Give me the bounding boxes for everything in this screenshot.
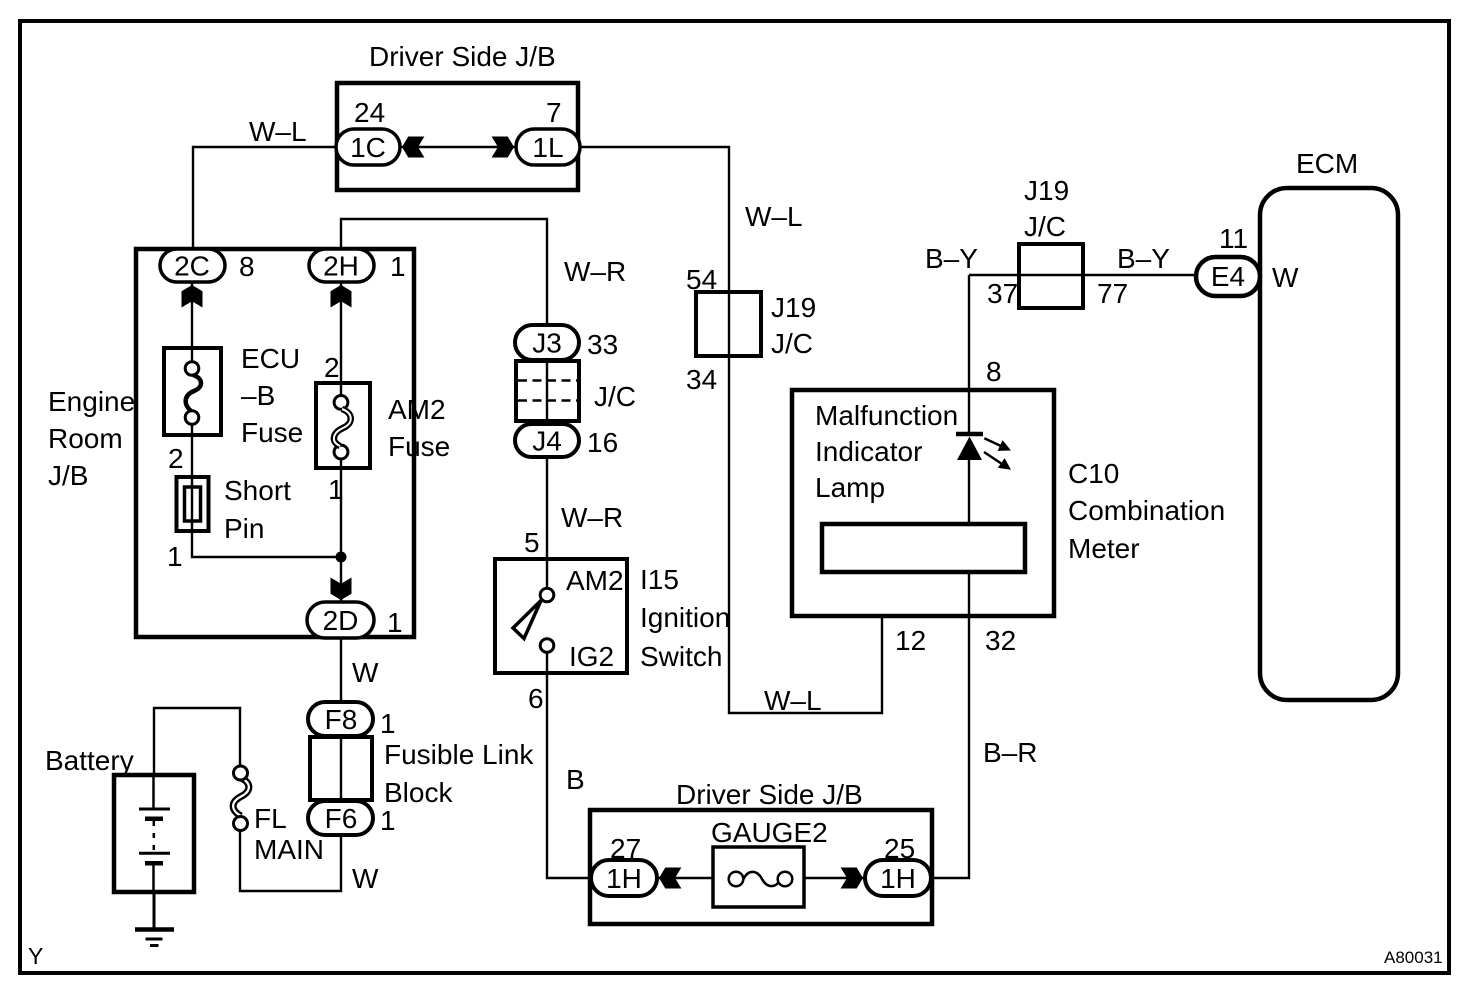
svg-text:1: 1 <box>167 541 183 572</box>
wire LED to resistor strip <box>968 460 970 524</box>
svg-text:Y: Y <box>28 943 43 969</box>
wire from 1L right to J19 J/C down to W-L corner then to meter pin 12 <box>580 147 882 713</box>
wire from 2H up and right to J3 <box>341 219 547 326</box>
svg-text:Malfunction: Malfunction <box>815 400 958 431</box>
svg-text:Meter: Meter <box>1068 533 1140 564</box>
svg-text:5: 5 <box>524 527 540 558</box>
fusible link block box <box>310 737 372 800</box>
svg-text:W–L: W–L <box>249 116 307 147</box>
svg-text:33: 33 <box>587 329 618 360</box>
svg-text:F6: F6 <box>325 803 358 834</box>
connector J3 <box>515 325 579 360</box>
wire W-L from 1C to 2C <box>193 147 336 250</box>
connector J4 <box>515 424 579 457</box>
svg-text:I15: I15 <box>640 564 679 595</box>
junction connector J/C box (J3/J4) <box>516 361 579 421</box>
wire F6 down and left to FL MAIN <box>240 830 341 891</box>
svg-text:7: 7 <box>546 97 562 128</box>
svg-text:–B: –B <box>241 380 275 411</box>
svg-text:Ignition: Ignition <box>640 602 730 633</box>
svg-text:8: 8 <box>986 356 1002 387</box>
svg-text:B–Y: B–Y <box>925 243 978 274</box>
svg-text:34: 34 <box>686 364 717 395</box>
svg-text:W: W <box>352 863 379 894</box>
arrow into 1H 27 (pointing left) <box>659 868 681 889</box>
junction block: Driver Side J/B (bottom) <box>590 810 932 924</box>
arrow down into 2D <box>331 578 352 601</box>
svg-text:E4: E4 <box>1211 261 1245 292</box>
svg-text:Battery: Battery <box>45 745 134 776</box>
svg-text:2C: 2C <box>174 251 210 282</box>
svg-text:ECU: ECU <box>241 343 300 374</box>
connector 2D <box>307 602 374 638</box>
contact IG2 <box>540 639 554 653</box>
svg-text:J3: J3 <box>532 328 562 359</box>
arrow into 1H 25 (pointing right) <box>841 868 863 889</box>
wire GAUGE2 to 1H(25) <box>804 877 865 879</box>
wire B-Y horizontal to E4 <box>969 274 1196 276</box>
wire 1H(27) to GAUGE2 <box>657 877 713 879</box>
svg-text:54: 54 <box>686 264 717 295</box>
arrow into 1L (pointing right) <box>492 137 514 158</box>
arrow up into 2H <box>331 285 352 308</box>
svg-text:J/B: J/B <box>48 460 88 491</box>
svg-text:1: 1 <box>380 708 396 739</box>
svg-text:1: 1 <box>390 251 406 282</box>
svg-text:B: B <box>566 764 585 795</box>
arrow up into 2C <box>182 285 203 308</box>
svg-text:B–Y: B–Y <box>1117 243 1170 274</box>
svg-text:B–R: B–R <box>983 737 1037 768</box>
svg-text:77: 77 <box>1097 278 1128 309</box>
svg-text:1: 1 <box>380 805 396 836</box>
ECM box <box>1260 188 1398 700</box>
svg-text:Fuse: Fuse <box>388 431 450 462</box>
svg-text:FL: FL <box>254 803 287 834</box>
wire 2H down to AM2 fuse <box>340 282 342 383</box>
svg-text:A80031: A80031 <box>1384 948 1443 967</box>
svg-text:J/C: J/C <box>594 381 636 412</box>
short pin <box>177 477 209 531</box>
connector F8 <box>308 702 373 736</box>
fusible link FL MAIN <box>233 766 249 831</box>
svg-text:25: 25 <box>884 833 915 864</box>
ground <box>135 892 174 946</box>
svg-text:1: 1 <box>328 474 344 505</box>
svg-text:2: 2 <box>324 352 340 383</box>
svg-text:Fusible Link: Fusible Link <box>384 739 534 770</box>
svg-text:J/C: J/C <box>771 328 813 359</box>
svg-text:J4: J4 <box>532 426 562 457</box>
svg-text:J/C: J/C <box>1024 211 1066 242</box>
svg-text:Engine: Engine <box>48 386 135 417</box>
svg-text:11: 11 <box>1219 223 1248 254</box>
svg-text:Lamp: Lamp <box>815 472 885 503</box>
wire pin 32 down from strip to 1H(25) wire <box>931 572 969 878</box>
connector 2C <box>160 249 225 282</box>
svg-text:Combination: Combination <box>1068 495 1225 526</box>
connector 1C <box>336 129 400 165</box>
wire J4 down to ignition switch <box>546 457 548 559</box>
battery <box>114 775 194 892</box>
svg-text:27: 27 <box>610 833 641 864</box>
svg-text:24: 24 <box>354 97 385 128</box>
svg-text:J19: J19 <box>771 292 816 323</box>
svg-text:8: 8 <box>239 251 255 282</box>
switch lever <box>513 601 541 639</box>
ignition switch I15 <box>495 559 627 675</box>
svg-text:GAUGE2: GAUGE2 <box>711 817 828 848</box>
wire B-Y corner down through meter to LED <box>968 275 970 432</box>
svg-text:2: 2 <box>168 443 184 474</box>
svg-text:J19: J19 <box>1024 175 1069 206</box>
wire AM2 fuse down through junction to 2D <box>340 468 342 603</box>
wire 2C down to ECU-B fuse <box>191 282 193 348</box>
LED lamp symbol <box>956 434 1011 470</box>
svg-text:32: 32 <box>985 625 1016 656</box>
connector 1L <box>516 129 580 165</box>
svg-text:12: 12 <box>895 625 926 656</box>
svg-text:1C: 1C <box>350 132 386 163</box>
svg-text:37: 37 <box>987 278 1018 309</box>
svg-text:2H: 2H <box>323 251 359 282</box>
contact AM2 <box>540 588 554 602</box>
svg-text:Short: Short <box>224 475 291 506</box>
meter inner strip <box>822 524 1025 572</box>
svg-text:Switch: Switch <box>640 641 722 672</box>
wire between 1C and 1L <box>400 146 516 148</box>
svg-text:16: 16 <box>587 427 618 458</box>
ECU-B fuse <box>164 348 221 435</box>
svg-text:C10: C10 <box>1068 458 1119 489</box>
svg-text:W: W <box>1272 262 1299 293</box>
svg-text:IG2: IG2 <box>569 641 614 672</box>
combination meter box C10 <box>792 390 1054 616</box>
junction dot <box>336 552 347 563</box>
svg-text:1H: 1H <box>606 863 642 894</box>
junction block: Driver Side J/B (top) <box>337 83 578 190</box>
svg-text:F8: F8 <box>325 704 358 735</box>
svg-text:Block: Block <box>384 777 453 808</box>
svg-text:AM2: AM2 <box>388 394 446 425</box>
connector 2H <box>309 249 374 282</box>
wire Short Pin to junction <box>192 531 341 557</box>
svg-text:W–L: W–L <box>764 685 822 716</box>
svg-text:Room: Room <box>48 423 123 454</box>
svg-text:6: 6 <box>528 683 544 714</box>
connector 1H (25) <box>865 860 931 896</box>
wire battery to FL MAIN <box>154 708 240 775</box>
svg-text:1H: 1H <box>880 863 916 894</box>
svg-text:Fuse: Fuse <box>241 417 303 448</box>
svg-text:Driver Side J/B: Driver Side J/B <box>369 41 556 72</box>
svg-text:Indicator: Indicator <box>815 436 922 467</box>
connector E4 <box>1196 257 1260 296</box>
svg-text:AM2: AM2 <box>566 565 624 596</box>
svg-text:W–L: W–L <box>745 201 803 232</box>
svg-text:Pin: Pin <box>224 513 264 544</box>
svg-text:ECM: ECM <box>1296 148 1358 179</box>
junction block: Engine Room J/B <box>136 249 414 637</box>
svg-text:MAIN: MAIN <box>254 834 324 865</box>
wire IG2 down to 1H(27) <box>547 675 592 878</box>
junction connector J19 J/C box (left) <box>696 292 761 356</box>
junction connector J19 J/C box (right) <box>1019 244 1083 308</box>
wire ECU-B fuse to Short Pin <box>191 435 193 477</box>
svg-text:W–R: W–R <box>561 502 623 533</box>
AM2 fuse <box>316 383 370 468</box>
svg-text:1: 1 <box>387 607 403 638</box>
connector F6 <box>308 801 373 835</box>
svg-text:2D: 2D <box>323 605 359 636</box>
connector 1H (27) <box>591 860 657 896</box>
wire 2D down to F8 <box>340 638 342 704</box>
svg-text:W–R: W–R <box>564 256 626 287</box>
arrow into 1C (pointing left) <box>402 137 424 158</box>
svg-text:1L: 1L <box>532 132 563 163</box>
svg-text:W: W <box>352 657 379 688</box>
svg-text:Driver Side J/B: Driver Side J/B <box>676 779 863 810</box>
GAUGE2 fuse <box>713 847 804 907</box>
